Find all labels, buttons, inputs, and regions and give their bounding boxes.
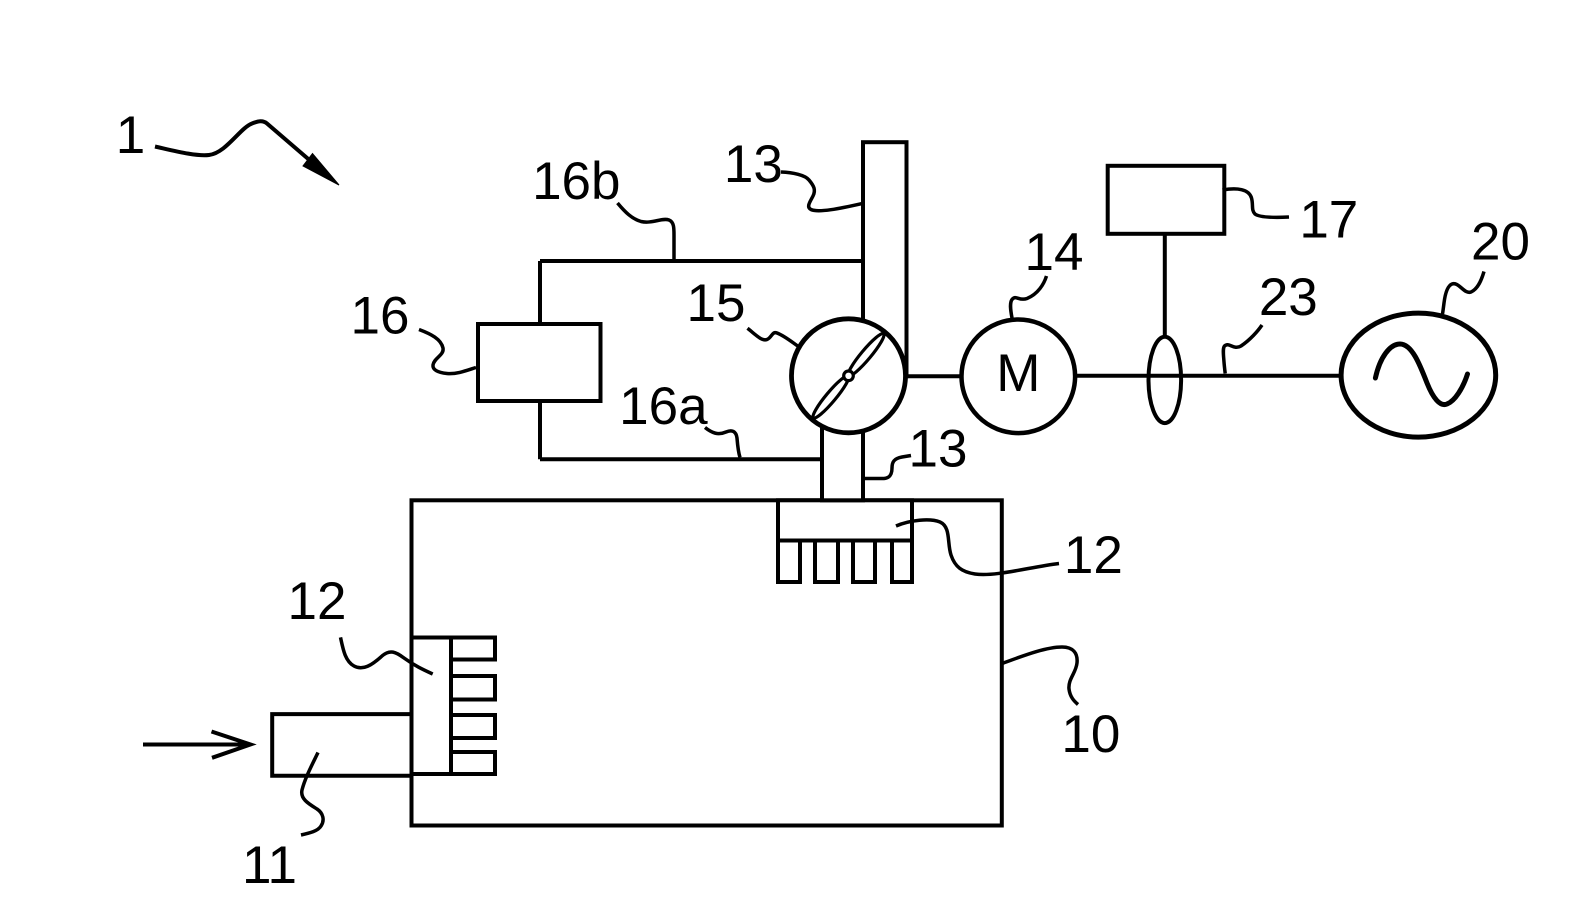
leader 20 (1443, 272, 1485, 315)
svg-text:M: M (996, 344, 1040, 403)
svg-text:13: 13 (909, 420, 968, 479)
coupling 23 (1149, 337, 1182, 423)
leader 17 (1223, 189, 1290, 217)
leader 10 (1002, 647, 1078, 705)
fan hub (844, 371, 854, 381)
heat exchanger 12 (left comb) (412, 638, 496, 775)
box 10 (412, 500, 1002, 825)
svg-text:10: 10 (1061, 705, 1120, 764)
motor 14 (962, 320, 1076, 434)
duct 13 upper (863, 142, 907, 376)
fan blade lower (810, 373, 853, 421)
svg-text:14: 14 (1025, 223, 1084, 282)
svg-text:23: 23 (1259, 268, 1318, 327)
leader 16a (705, 428, 740, 458)
heat exchanger 12 (top comb) (778, 500, 912, 582)
fan 15 (792, 319, 906, 433)
box 16 (478, 324, 601, 401)
shaft fan to motor (904, 374, 962, 378)
leader 13 bottom (864, 456, 912, 479)
leader 12 top (896, 520, 1059, 575)
sine wave (1375, 344, 1467, 405)
svg-text:17: 17 (1299, 190, 1358, 249)
leader 12 left (341, 637, 433, 674)
svg-text:20: 20 (1471, 213, 1530, 272)
svg-text:16: 16 (351, 287, 410, 346)
fan blade upper (845, 331, 888, 379)
leader 16b (618, 203, 675, 259)
box 17 (1108, 166, 1225, 234)
leader 23 (1223, 325, 1262, 374)
AC source 20 (1341, 313, 1496, 437)
wire leader arrow for 1 (155, 121, 310, 160)
inlet duct 11 (272, 714, 411, 776)
wire 16a horizontal (540, 457, 824, 461)
leader 15 (748, 328, 801, 348)
svg-text:12: 12 (288, 572, 347, 631)
wire left vertical (538, 261, 542, 459)
svg-text:13: 13 (724, 135, 783, 194)
inlet flow arrow (143, 732, 251, 758)
duct 13 lower (822, 372, 863, 500)
leader 14 (1010, 276, 1046, 318)
svg-text:12: 12 (1064, 526, 1123, 585)
svg-text:15: 15 (687, 274, 746, 333)
svg-text:16a: 16a (619, 377, 708, 436)
leader 13 top (781, 172, 863, 211)
leader 11 (301, 753, 323, 836)
svg-text:16b: 16b (532, 152, 620, 211)
shaft motor to source (1075, 374, 1341, 378)
leader 16 (419, 330, 476, 374)
wire 16b horizontal (540, 259, 863, 263)
svg-text:1: 1 (116, 106, 145, 165)
wire box17 to coupling (1163, 234, 1167, 337)
svg-text:11: 11 (242, 836, 297, 895)
